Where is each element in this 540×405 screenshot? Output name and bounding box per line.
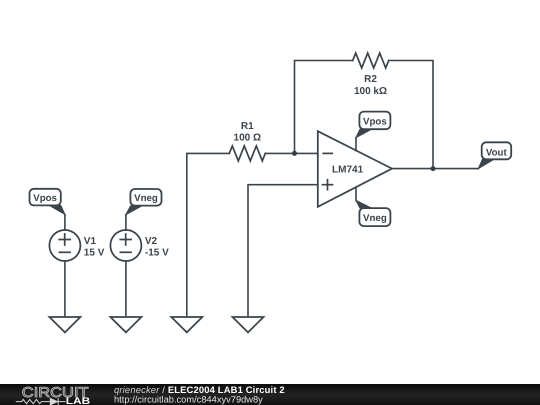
svg-text:100 Ω: 100 Ω xyxy=(234,133,261,144)
svg-text:LAB: LAB xyxy=(66,396,91,405)
wire R1 left xyxy=(187,153,230,317)
node flag Vpos at V1 xyxy=(30,189,65,215)
ground under V1 xyxy=(49,317,80,332)
label R2 value xyxy=(354,74,387,97)
node junction at R1 / feedback xyxy=(292,151,297,156)
svg-text:LM741: LM741 xyxy=(332,165,364,176)
svg-text:V2: V2 xyxy=(145,236,158,247)
svg-text:R1: R1 xyxy=(241,121,254,132)
node flag Vpos at op-amp V+ xyxy=(356,112,390,138)
svg-text:Vpos: Vpos xyxy=(33,193,57,204)
svg-text:-15 V: -15 V xyxy=(145,248,169,259)
svg-text:qrienecker / ELEC2004 LAB1 Cir: qrienecker / ELEC2004 LAB1 Circuit 2 xyxy=(114,384,285,395)
ground under non-inverting input wire xyxy=(233,317,264,332)
label V2 value xyxy=(145,236,169,259)
resistor R2 xyxy=(353,53,389,68)
node flag Vneg at op-amp V- xyxy=(356,200,390,226)
wire top feedback horizontal right xyxy=(389,61,433,169)
wire R1 to op-amp inverting input xyxy=(265,152,318,154)
svg-text:15 V: 15 V xyxy=(84,248,105,259)
op-amp V- power pin stub xyxy=(355,187,357,200)
voltage source V1 circle xyxy=(49,230,80,261)
svg-text:Vpos: Vpos xyxy=(363,116,387,127)
ground under R1 input wire xyxy=(171,317,202,332)
svg-text:Vneg: Vneg xyxy=(134,193,158,204)
voltage source V2 wire bottom xyxy=(125,261,127,317)
wire op-amp output xyxy=(392,168,478,170)
wire top feedback horizontal left xyxy=(295,61,353,154)
node flag Vout at output xyxy=(478,142,511,168)
op-amp plus input symbol xyxy=(323,180,333,190)
svg-text:http://circuitlab.com/c844xyv7: http://circuitlab.com/c844xyv79dw8y xyxy=(114,395,263,405)
voltage source V1 wire top xyxy=(64,214,66,230)
op-amp U1 LM741 triangle xyxy=(318,131,392,207)
V1 plus symbol xyxy=(59,234,70,252)
resistor R1 xyxy=(229,146,265,161)
node flag Vneg at V2 xyxy=(126,189,162,215)
svg-text:V1: V1 xyxy=(84,236,97,247)
wire non-inverting input xyxy=(248,185,318,317)
V2 plus symbol xyxy=(120,234,131,252)
svg-text:R2: R2 xyxy=(364,74,377,85)
label V1 value xyxy=(84,236,105,259)
ground under V2 xyxy=(110,317,141,332)
svg-text:Vneg: Vneg xyxy=(363,213,387,224)
label R1 value xyxy=(234,121,261,144)
op-amp minus input symbol xyxy=(323,152,332,154)
voltage source V1 wire bottom xyxy=(64,261,66,317)
voltage source V2 wire top xyxy=(125,215,127,230)
CircuitLab logo resistor+diode glyph xyxy=(16,398,66,405)
node junction at output / feedback xyxy=(431,166,436,171)
op-amp V+ power pin stub xyxy=(355,138,357,151)
voltage source V2 circle xyxy=(110,230,141,261)
V2 minus symbol xyxy=(120,251,131,253)
V1 minus symbol xyxy=(59,251,70,253)
svg-text:Vout: Vout xyxy=(486,147,508,158)
svg-text:100 kΩ: 100 kΩ xyxy=(354,86,387,97)
